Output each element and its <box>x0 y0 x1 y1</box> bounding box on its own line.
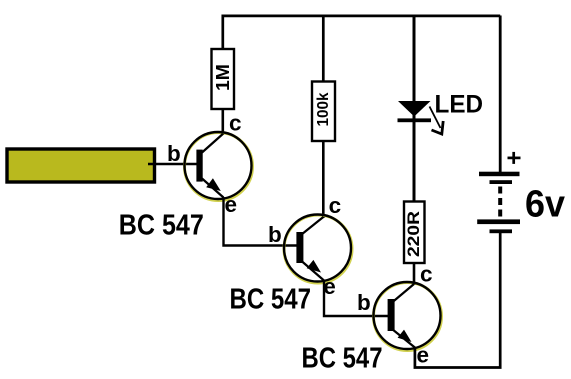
svg-text:6v: 6v <box>525 184 565 226</box>
battery BT1 6V <box>477 152 520 233</box>
svg-text:1M: 1M <box>213 64 233 91</box>
wire: 100k to Q2 collector <box>322 141 325 218</box>
svg-text:b: b <box>268 222 282 247</box>
svg-text:c: c <box>329 193 342 218</box>
svg-text:BC 547: BC 547 <box>302 343 383 375</box>
wire: Q3 emitter to battery negative <box>415 233 500 368</box>
svg-text:100k: 100k <box>315 92 332 126</box>
wire: 220R to Q3 collector <box>413 264 416 286</box>
LED light arrow <box>430 107 444 135</box>
wire: Q1 emitter to Q2 base <box>224 197 299 246</box>
wire: battery positive drop from rail <box>499 16 502 173</box>
resistor R1 1M <box>212 49 235 109</box>
transistor Q3 BC547 <box>374 282 442 351</box>
svg-text:BC 547: BC 547 <box>230 284 312 316</box>
wire: 100k branch drop from rail <box>322 16 325 83</box>
svg-text:220R: 220R <box>405 211 423 257</box>
LED D1 <box>398 101 432 122</box>
wire: plate to Q1 base <box>148 163 198 166</box>
svg-text:c: c <box>420 262 433 287</box>
wire: LED to 220R <box>413 115 416 202</box>
wire: Q2 emitter to Q3 base <box>324 281 390 317</box>
resistor R3 220R <box>404 202 425 264</box>
wire: LED branch drop from rail <box>413 16 416 103</box>
wire: 1M to Q1 collector <box>222 109 225 136</box>
svg-text:c: c <box>229 111 242 136</box>
svg-text:b: b <box>357 290 371 315</box>
transistor Q2 BC547 <box>284 215 352 284</box>
transistor Q1 BC547 <box>185 132 253 201</box>
svg-text:LED: LED <box>435 90 484 118</box>
resistor R2 100k <box>312 82 335 142</box>
svg-text:BC 547: BC 547 <box>119 210 204 242</box>
svg-text:b: b <box>167 141 181 166</box>
wire: top supply rail <box>223 16 500 49</box>
svg-text:e: e <box>225 192 238 217</box>
touch plate electrode <box>7 149 155 182</box>
svg-text:e: e <box>417 343 430 368</box>
